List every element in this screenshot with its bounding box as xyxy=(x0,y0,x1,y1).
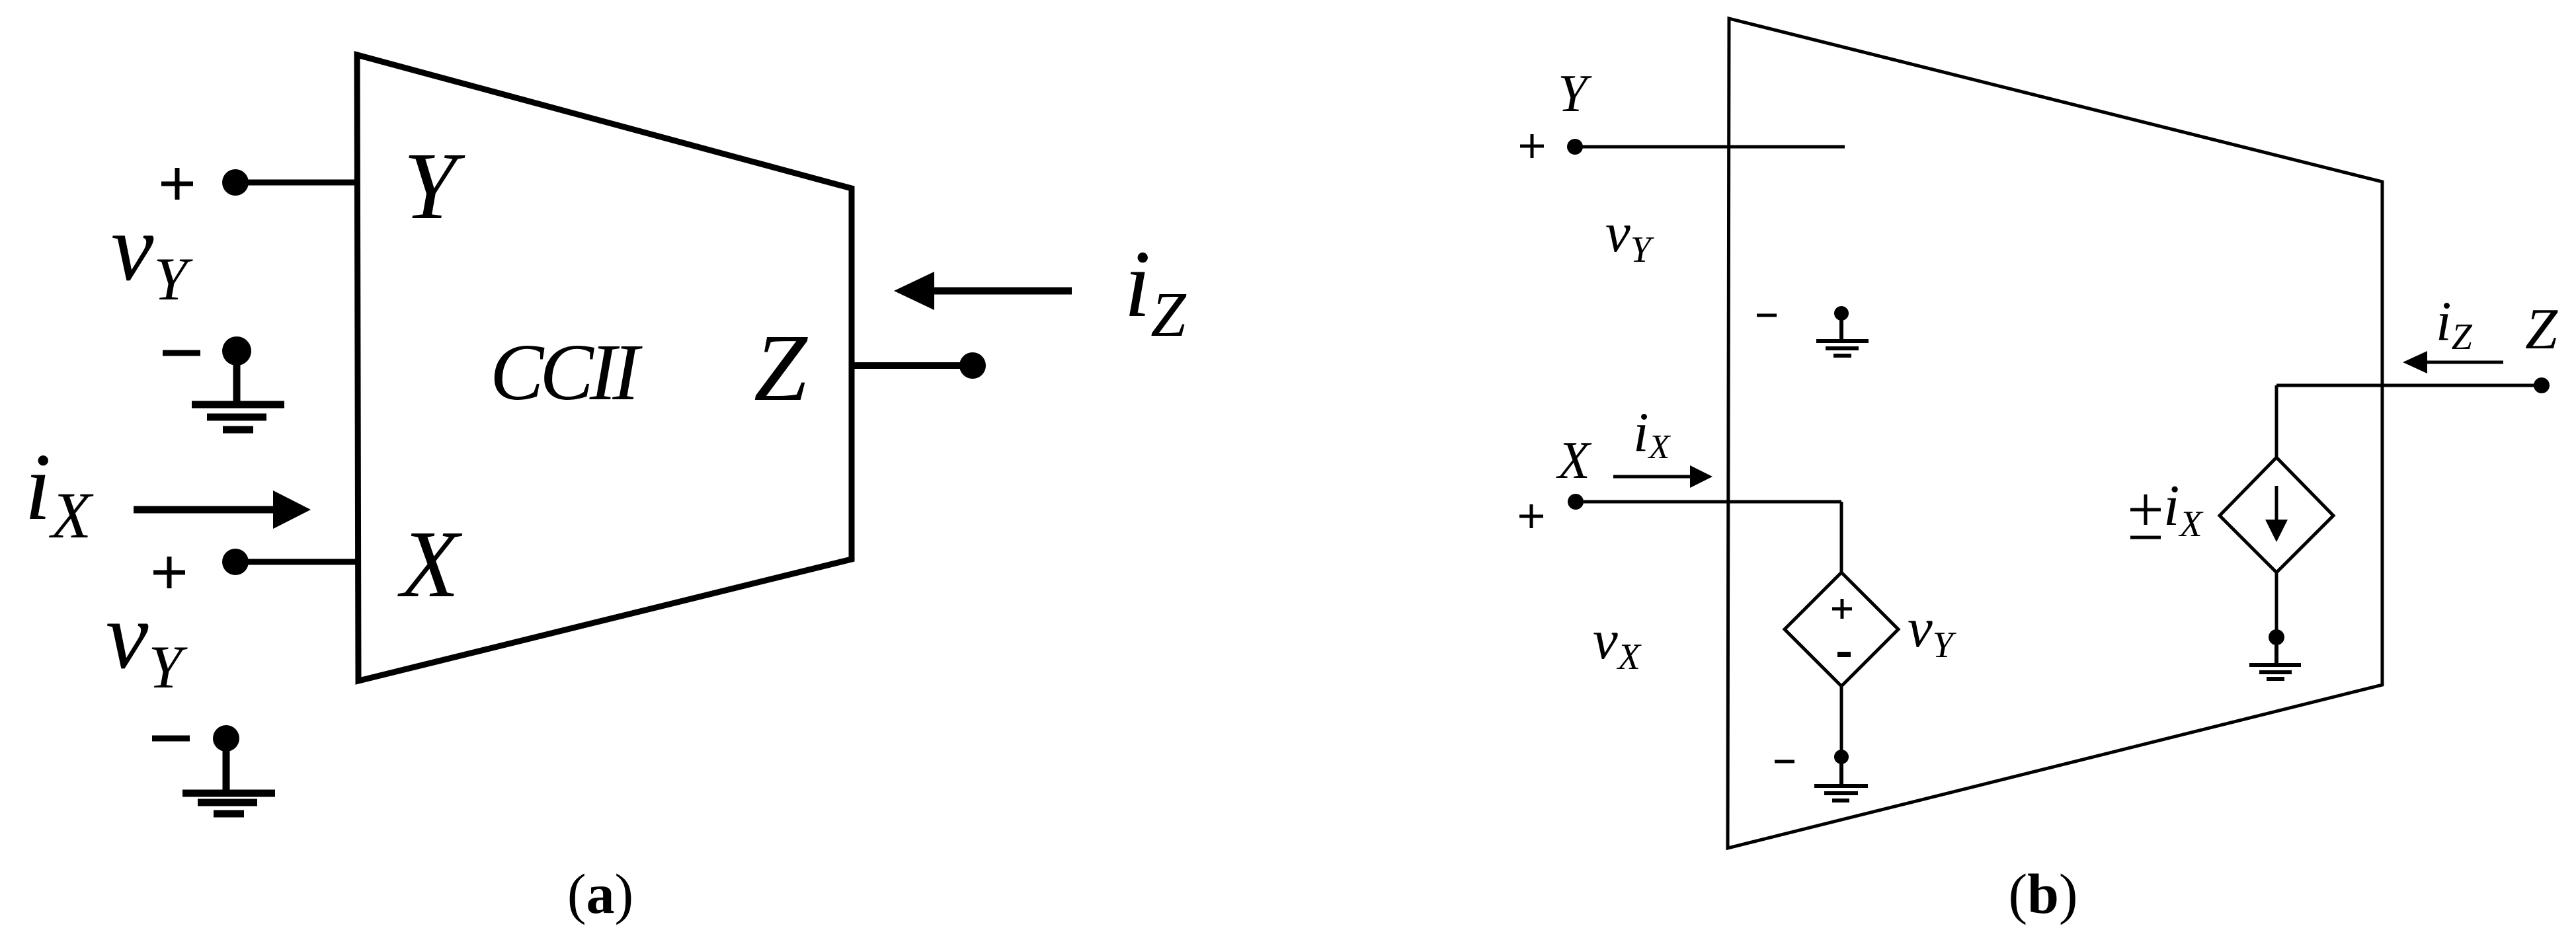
plus inside E1 xyxy=(1832,599,1852,619)
node Y terminal dot xyxy=(222,169,249,196)
arrow iZ xyxy=(931,288,1072,295)
wire X xyxy=(1576,500,1841,504)
dependent source F1 (CCCS ±iX diamond) xyxy=(2220,457,2333,572)
plus sign (vY bottom, X pin) xyxy=(153,557,185,588)
label ±iX xyxy=(2130,494,2161,537)
svg-text:X: X xyxy=(397,512,463,617)
plus sign (vY top) xyxy=(161,168,193,200)
ground (below E1) xyxy=(1814,757,1868,801)
arrow inside F1 xyxy=(2275,486,2278,522)
minus inside E1 xyxy=(1837,652,1851,657)
minus sign (below E1) xyxy=(1775,760,1794,763)
wire X pin xyxy=(235,559,357,565)
node dot internal Y ground xyxy=(1834,306,1849,321)
wire Z to source xyxy=(2275,385,2278,459)
minus sign (vY bottom) xyxy=(152,736,190,742)
svg-text:CCII: CCII xyxy=(490,328,643,417)
svg-text:(b): (b) xyxy=(2008,862,2077,925)
node X terminal dot xyxy=(1568,494,1584,510)
svg-text:X: X xyxy=(1556,432,1592,490)
wire below F1 xyxy=(2275,572,2278,637)
node X terminal dot xyxy=(222,549,249,575)
node Y terminal dot xyxy=(1567,139,1583,155)
svg-text:Y: Y xyxy=(1558,65,1592,123)
wire below E1 xyxy=(1840,686,1843,757)
node dot below E1 xyxy=(1834,750,1849,764)
node dot at upper ground xyxy=(222,336,251,366)
wire Y pin xyxy=(235,180,357,186)
node dot below F1 xyxy=(2269,629,2284,645)
plus sign (X terminal) xyxy=(1519,504,1543,528)
ground (upper) xyxy=(192,351,284,430)
ground (below F1) xyxy=(2249,637,2301,679)
CCII block U1 (trapezoid) xyxy=(357,55,852,681)
svg-text:Z: Z xyxy=(754,315,808,421)
node Z terminal dot xyxy=(959,352,986,379)
wire Y xyxy=(1575,145,1845,149)
arrow iX xyxy=(134,506,281,514)
minus sign (vY top) xyxy=(163,350,200,356)
wire X to source xyxy=(1840,502,1843,574)
arrow iZ xyxy=(2423,361,2503,364)
ground (internal Y) xyxy=(1816,313,1869,356)
arrow iX xyxy=(1613,475,1693,479)
node Z terminal dot xyxy=(2534,377,2550,393)
wire Z xyxy=(2276,384,2542,387)
svg-text:(a): (a) xyxy=(567,862,633,925)
svg-text:Z: Z xyxy=(2525,297,2558,362)
wire Z pin xyxy=(852,362,973,369)
plus sign (Y terminal) xyxy=(1520,134,1544,158)
ground (lower) xyxy=(182,738,275,814)
equivalent-model block (trapezoid) xyxy=(1728,19,2382,848)
node dot at lower ground xyxy=(213,725,239,752)
dependent source E1 (VCVS vY diamond) xyxy=(1785,572,1898,686)
svg-text:Y: Y xyxy=(403,134,465,239)
minus sign (Y internal) xyxy=(1757,314,1777,317)
